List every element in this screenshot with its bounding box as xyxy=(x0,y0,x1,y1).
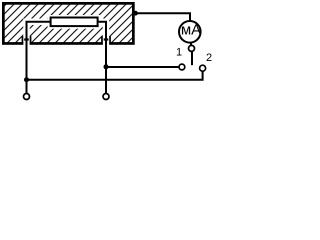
white clearance channel left lead xyxy=(27,22,53,46)
switch contact 2 xyxy=(200,65,206,71)
wire: enclosure case to meter (top) xyxy=(134,13,190,20)
wire: left feed-through to contact 2 xyxy=(27,71,203,79)
junction dot on case xyxy=(133,11,138,16)
bottom terminal left xyxy=(24,94,30,100)
feed-through bushing right: hole edge lines xyxy=(101,36,103,44)
junction dot right feed-through xyxy=(104,64,109,69)
wire: right feed-through to contact 1 xyxy=(106,66,179,68)
switch lever xyxy=(191,52,193,65)
svg-text:1: 1 xyxy=(176,47,182,59)
feed-through bushing right: wire tick xyxy=(104,38,109,40)
milliammeter U1 xyxy=(179,21,201,43)
wire: resistor left lead down to bottom terminal xyxy=(27,22,51,94)
svg-text:2: 2 xyxy=(206,52,212,64)
feed-through bushing left: wire tick xyxy=(24,38,29,40)
resistor R1 xyxy=(51,18,98,27)
wire: meter to switch pole xyxy=(190,42,192,45)
white clearance window around resistor R1 xyxy=(48,15,101,29)
bottom terminal right xyxy=(103,94,109,100)
switch pole terminal xyxy=(189,45,195,51)
wire: resistor right lead down to bottom terminal xyxy=(98,22,106,94)
shielded enclosure (hatched box) xyxy=(3,3,133,43)
switch contact 1 xyxy=(179,64,185,70)
svg-text:мА: мА xyxy=(181,22,201,39)
feed-through bushing left: hole edge lines xyxy=(22,36,24,44)
junction dot left feed-through xyxy=(24,77,29,82)
white clearance channel right lead xyxy=(96,22,106,46)
